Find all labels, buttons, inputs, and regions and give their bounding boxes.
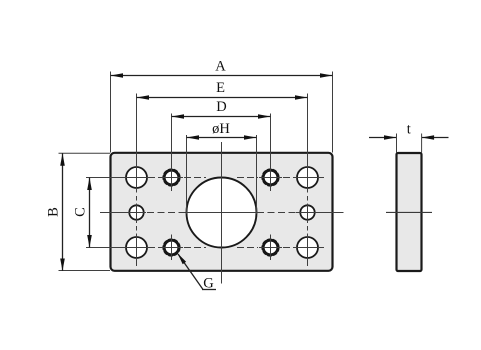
dimension line H diameter — [187, 121, 257, 140]
svg-text:D: D — [216, 99, 226, 115]
middle hole left — [129, 205, 143, 219]
extension line D left / top-left G hole centerline — [171, 114, 173, 192]
extension line E left / column centerline left holes — [136, 94, 138, 267]
middle hole right — [300, 205, 314, 219]
central circle vertical centerline — [221, 142, 223, 284]
dimension line t — [369, 122, 449, 153]
dimension line B — [46, 153, 111, 271]
dimension line C — [73, 178, 124, 248]
extension line E right / column centerline right holes — [307, 94, 309, 267]
central bore hole — [187, 178, 257, 248]
svg-text:E: E — [216, 80, 225, 96]
plate front view body — [111, 153, 333, 271]
threaded G hole top-right — [262, 169, 279, 186]
big hole bottom-right — [297, 237, 318, 258]
svg-text:t: t — [407, 122, 411, 138]
leader G — [178, 253, 217, 291]
dimension line D — [172, 99, 271, 119]
bottom hole row centerline — [120, 247, 324, 249]
big hole top-left — [126, 167, 147, 188]
svg-text:C: C — [73, 207, 89, 217]
extension line D right / top-right G hole centerline — [270, 114, 272, 192]
bottom-left G hole vertical centerline — [171, 235, 173, 261]
threaded G hole top-left — [163, 169, 180, 186]
extension line H right — [256, 135, 258, 214]
svg-text:øH: øH — [212, 121, 230, 137]
svg-text:A: A — [215, 59, 226, 75]
middle row main centerline — [100, 212, 344, 214]
extension line A right — [332, 72, 334, 153]
svg-text:G: G — [203, 276, 214, 292]
top hole row centerline — [120, 177, 324, 179]
side view body — [397, 153, 422, 271]
big hole bottom-left — [126, 237, 147, 258]
threaded G hole bottom-left — [163, 239, 180, 256]
threaded G hole bottom-right — [262, 239, 279, 256]
extension line A left — [110, 72, 112, 153]
dimension line E — [137, 80, 308, 100]
big hole top-right — [297, 167, 318, 188]
svg-text:B: B — [46, 207, 62, 217]
extension line H left — [186, 135, 188, 214]
dimension line A — [111, 59, 333, 78]
side view horizontal centerline — [386, 211, 432, 213]
bottom-right G hole vertical centerline — [270, 235, 272, 261]
